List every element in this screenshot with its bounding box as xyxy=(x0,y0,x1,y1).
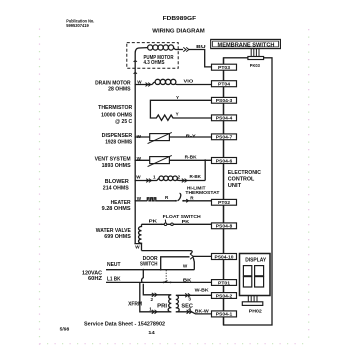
svg-text:R-Y: R-Y xyxy=(186,134,196,139)
svg-text:XFRM: XFRM xyxy=(128,302,142,308)
svg-text:5995307419: 5995307419 xyxy=(66,23,89,28)
svg-text:BLOWER: BLOWER xyxy=(105,179,129,185)
svg-text:NEUT: NEUT xyxy=(107,262,121,268)
svg-text:10000 OHMS: 10000 OHMS xyxy=(101,112,133,118)
svg-text:1: 1 xyxy=(153,174,156,179)
svg-text:1: 1 xyxy=(149,307,152,312)
svg-text:W: W xyxy=(135,244,140,249)
svg-text:28 OHMS: 28 OHMS xyxy=(108,87,131,93)
svg-text:BK-W: BK-W xyxy=(195,309,210,314)
svg-text:4.3 OHMS: 4.3 OHMS xyxy=(144,60,166,66)
svg-text:PH02: PH02 xyxy=(249,308,262,313)
svg-text:SWITCH: SWITCH xyxy=(140,262,158,268)
svg-text:3: 3 xyxy=(188,296,191,301)
svg-text:PT03: PT03 xyxy=(218,65,230,70)
svg-text:PS04-2: PS04-2 xyxy=(216,293,233,298)
svg-text:PS04-10: PS04-10 xyxy=(215,254,234,259)
svg-text:DRAIN MOTOR: DRAIN MOTOR xyxy=(95,80,131,86)
svg-text:CONTROL: CONTROL xyxy=(228,177,255,183)
svg-text:BU: BU xyxy=(196,44,206,49)
svg-text:ELECTRONIC: ELECTRONIC xyxy=(228,170,262,176)
svg-text:9.28 OHMS: 9.28 OHMS xyxy=(102,206,132,212)
svg-text:PS04-3: PS04-3 xyxy=(216,98,233,103)
svg-text:PK03: PK03 xyxy=(250,63,260,68)
svg-text:R-BK: R-BK xyxy=(185,155,198,160)
svg-text:W: W xyxy=(137,134,142,139)
svg-text:DISPENSER: DISPENSER xyxy=(102,133,133,139)
svg-text:W: W xyxy=(137,156,142,161)
svg-text:PK: PK xyxy=(182,219,190,224)
svg-text:W: W xyxy=(137,196,142,201)
svg-text:UNIT: UNIT xyxy=(228,183,241,189)
svg-text:2: 2 xyxy=(178,174,181,179)
svg-text:PT04: PT04 xyxy=(218,82,230,87)
svg-text:5/98: 5/98 xyxy=(60,327,70,332)
svg-text:PS04-4: PS04-4 xyxy=(216,116,233,121)
svg-text:W: W xyxy=(136,174,141,179)
svg-text:Y: Y xyxy=(176,95,179,100)
svg-text:BK: BK xyxy=(183,277,192,282)
svg-text:PRI: PRI xyxy=(157,304,168,310)
svg-text:R-BK: R-BK xyxy=(190,174,202,179)
svg-text:FDB989GF: FDB989GF xyxy=(163,16,197,22)
svg-text:MEMBRANE SWITCH: MEMBRANE SWITCH xyxy=(218,42,275,48)
svg-text:PS04-7: PS04-7 xyxy=(216,135,233,140)
svg-text:W-BK: W-BK xyxy=(195,288,210,293)
svg-text:PS04-8: PS04-8 xyxy=(216,224,233,229)
svg-text:1893 OHMS: 1893 OHMS xyxy=(102,163,132,169)
svg-text:PK: PK xyxy=(149,219,158,224)
svg-text:60HZ: 60HZ xyxy=(88,276,102,282)
svg-text:2: 2 xyxy=(151,297,154,302)
svg-text:L1 BK: L1 BK xyxy=(107,276,121,282)
svg-text:WIRING DIAGRAM: WIRING DIAGRAM xyxy=(152,29,205,35)
svg-text:1928 OHMS: 1928 OHMS xyxy=(105,140,133,146)
svg-text:@ 25 C: @ 25 C xyxy=(115,119,132,125)
svg-text:Service Data Sheet - 154278902: Service Data Sheet - 154278902 xyxy=(84,322,165,328)
svg-text:4: 4 xyxy=(188,306,191,311)
svg-text:W: W xyxy=(137,80,142,85)
svg-text:PS04-6: PS04-6 xyxy=(216,158,233,163)
svg-text:VIO: VIO xyxy=(184,79,194,84)
svg-text:PS04-1: PS04-1 xyxy=(216,312,233,317)
svg-text:THERMISTOR: THERMISTOR xyxy=(98,105,132,111)
svg-text:14: 14 xyxy=(148,330,155,335)
svg-text:699 OHMS: 699 OHMS xyxy=(104,234,131,240)
svg-text:VENT SYSTEM: VENT SYSTEM xyxy=(95,157,131,163)
svg-text:SEC: SEC xyxy=(181,304,193,310)
svg-text:W: W xyxy=(183,264,188,269)
svg-text:Y: Y xyxy=(176,112,179,117)
svg-text:DISPLAY: DISPLAY xyxy=(245,257,267,263)
svg-text:214 OHMS: 214 OHMS xyxy=(103,186,130,192)
svg-text:THERMOSTAT: THERMOSTAT xyxy=(185,190,219,196)
svg-text:PT01: PT01 xyxy=(218,280,230,285)
svg-text:PT02: PT02 xyxy=(218,200,230,205)
